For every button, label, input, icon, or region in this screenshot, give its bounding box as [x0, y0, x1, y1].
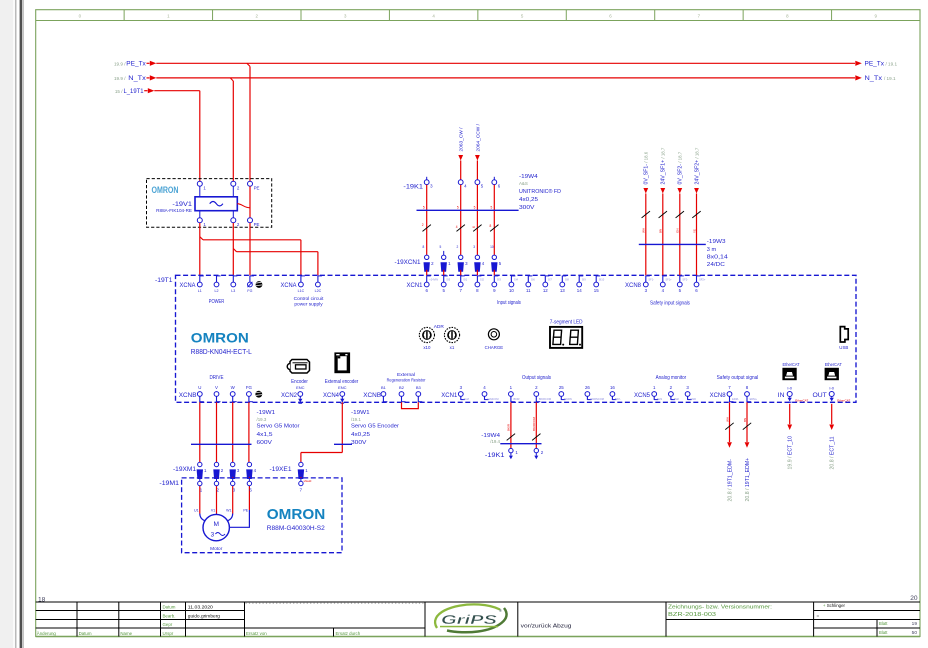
destination arrow 2064_CCW: [475, 155, 480, 161]
svg-text:WH: WH: [725, 417, 729, 422]
wire PE_Tx horizontal: [156, 62, 855, 64]
svg-text:7: 7: [459, 288, 462, 293]
ruler cell separators: [124, 10, 831, 21]
svg-text:A&S: A&S: [519, 181, 528, 186]
contact slash on wire 3: [423, 225, 431, 232]
svg-text:XCN8: XCN8: [710, 392, 726, 399]
motor circle M 3~: [203, 514, 229, 540]
svg-text:300V: 300V: [351, 440, 367, 446]
cable -19W1 motor bus line: [191, 443, 252, 445]
pin XCN4 ENC terminal: [340, 392, 345, 397]
wire XCN4 to encoder turn: [341, 402, 343, 452]
left panel strip (window chrome): [0, 0, 13, 648]
cable slash on wire 1: [507, 434, 515, 441]
svg-text:0V_SF2- / 18.7: 0V_SF2- / 18.7: [678, 151, 684, 184]
relay coil terminal 1: [509, 448, 513, 452]
svg-text:UNITRONIC® FD: UNITRONIC® FD: [519, 188, 561, 195]
encoder icon: [290, 360, 310, 374]
pin XCNA L2 stub: [216, 276, 218, 282]
svg-text:AM2: AM2: [674, 397, 680, 401]
svg-text:SI9: SI9: [582, 277, 586, 281]
svg-text:Zeichnungs- bzw. Versionsnumme: Zeichnungs- bzw. Versionsnummer:: [668, 604, 772, 610]
pin XCN1 1 terminal: [509, 392, 514, 397]
wire XCNB to motor plug at x=216.5: [216, 402, 218, 462]
svg-text:x10: x10: [423, 345, 431, 350]
svg-text:-19W1: -19W1: [257, 410, 276, 416]
svg-text:vor/zurück Abzug: vor/zurück Abzug: [521, 623, 572, 629]
svg-text:CHARGE: CHARGE: [485, 345, 504, 350]
svg-text:XCNB: XCNB: [363, 392, 381, 399]
pin motor 7 terminal: [299, 481, 303, 485]
svg-text:1: 1: [203, 222, 206, 227]
svg-text:SF2+: SF2+: [699, 277, 706, 281]
wire N_Tx horizontal: [156, 77, 855, 79]
pin stub XCN1 at x=494.3: [493, 276, 495, 282]
rotary switch x1 inner: [448, 331, 457, 340]
pin XCN8 6 terminal: [694, 282, 699, 287]
svg-text:B1: B1: [381, 385, 387, 390]
wire XCN1 pin2 down: [535, 402, 537, 448]
svg-text:6: 6: [472, 226, 476, 228]
svg-text:SI3: SI3: [497, 277, 501, 281]
svg-text:-19M1: -19M1: [159, 480, 179, 487]
source arrow L_19T1: [144, 90, 147, 92]
junction jog N_Tx drop: [230, 78, 233, 81]
source arrow 19T1_EDM-: [727, 442, 732, 448]
svg-text:3: 3: [211, 531, 215, 538]
svg-text:Name: Name: [120, 631, 132, 636]
-19K1 terminal 6: [492, 180, 497, 185]
svg-text:24V_SF2+ / 18.7: 24V_SF2+ / 18.7: [694, 147, 700, 184]
pin XCN1 7 terminal: [458, 282, 463, 287]
svg-text:20.8 / 19T1_EDM+: 20.8 / 19T1_EDM+: [745, 458, 751, 502]
wire branch to L1C horizontal: [203, 239, 301, 241]
svg-text:Bearb.: Bearb.: [163, 614, 176, 619]
pin XCN1 8 terminal: [475, 282, 480, 287]
svg-text:U1: U1: [194, 508, 199, 512]
svg-text:7: 7: [698, 13, 701, 18]
svg-text:V1: V1: [211, 508, 215, 512]
svg-text:OMRON: OMRON: [191, 330, 249, 346]
svg-text:ALMCOM: ALMCOM: [487, 397, 498, 401]
wire XCNB to motor plug at x=199.8: [199, 402, 201, 462]
wire N_Tx drop to filter pin 2: [232, 81, 234, 181]
destination arrow PE_Tx right: [855, 61, 862, 66]
wire filter pin1 to XCNA L1: [199, 223, 201, 275]
svg-text:U: U: [198, 385, 201, 390]
pin OUT terminal: [829, 392, 834, 397]
svg-text:13: 13: [560, 288, 565, 293]
pin motor 6 terminal: [247, 481, 251, 485]
svg-text:7-segment LED: 7-segment LED: [550, 320, 583, 326]
svg-text:1: 1: [448, 261, 451, 266]
svg-text:20: 20: [910, 595, 918, 602]
svg-text:YE: YE: [692, 229, 696, 233]
cable -19W1 encoder bus line: [334, 443, 352, 445]
svg-text:XCN1: XCN1: [407, 282, 423, 289]
pin XCN8 7 stub: [729, 396, 731, 402]
svg-text:4: 4: [456, 225, 458, 229]
svg-text:GND: GND: [690, 397, 696, 401]
svg-text:External: External: [397, 372, 415, 378]
wire XCNB to motor plug at x=248.9: [248, 402, 250, 462]
svg-text:BZR-2018-003: BZR-2018-003: [668, 612, 716, 618]
pin XCN1 12 stub: [544, 276, 546, 282]
svg-text:5: 5: [440, 245, 442, 249]
7-segment digit at 557.6: [553, 330, 562, 344]
svg-text:M: M: [213, 521, 219, 528]
svg-text:-19K1: -19K1: [403, 183, 423, 190]
plug -19XCN1 pin 1 stub: [443, 251, 445, 255]
svg-text:2: 2: [237, 222, 240, 227]
wire motor pin 2 down: [216, 486, 218, 514]
svg-text:18: 18: [38, 597, 46, 604]
svg-text:Ersatz von: Ersatz von: [246, 631, 267, 636]
pin XCN1 16 terminal: [610, 392, 615, 397]
svg-text:BKIR: BKIR: [514, 397, 520, 401]
filter pin 1 top terminal: [197, 181, 202, 186]
svg-text:6: 6: [609, 13, 612, 18]
svg-text:3: 3: [430, 184, 433, 189]
svg-text:AM1: AM1: [657, 397, 663, 401]
svg-text:-19V1: -19V1: [172, 201, 192, 208]
svg-text:Änderung: Änderung: [37, 631, 57, 636]
svg-text:Datum: Datum: [79, 631, 92, 636]
svg-text:4: 4: [662, 288, 665, 293]
svg-text:BN: BN: [743, 418, 747, 422]
wire plug to XCN1 at x=460.7: [460, 270, 462, 276]
svg-text:PE_Tx: PE_Tx: [865, 60, 885, 67]
svg-text:24/DC: 24/DC: [707, 262, 725, 268]
CHARGE LED: [488, 329, 499, 340]
svg-text:1: 1: [167, 13, 170, 18]
svg-text:shield: shield: [304, 479, 312, 483]
filter sine symbol: [210, 202, 223, 206]
-19K1 terminal 3: [424, 180, 429, 185]
wire 24V_SF1+ to XCN8: [662, 194, 664, 276]
pin XCN1 1 stub: [510, 396, 512, 402]
svg-text:Regeneration Resistor: Regeneration Resistor: [387, 378, 426, 384]
wire plug to XCN1 at x=494.3: [493, 270, 495, 276]
svg-text:+ Schlinger: + Schlinger: [823, 603, 846, 608]
pin XCNB U terminal: [197, 392, 202, 397]
pin XCN5 1 stub: [653, 396, 655, 400]
svg-text:I-0: I-0: [787, 385, 792, 390]
pin XCN1 15 terminal: [594, 282, 599, 287]
ground symbol at XCNB FG: [255, 391, 262, 398]
svg-text:L_19T1: L_19T1: [124, 88, 145, 95]
wire filter PE to XCNA FG: [249, 223, 251, 275]
cable slash on 24V_SF1+: [659, 211, 667, 218]
filter PE bottom terminal: [248, 218, 253, 223]
7-segment display box: [550, 327, 582, 348]
svg-text:3: 3: [237, 468, 240, 473]
plug -19XCN1 pin 5: [492, 255, 496, 259]
svg-text:L1: L1: [198, 289, 202, 293]
svg-text:USB: USB: [839, 345, 848, 350]
svg-text:B2: B2: [399, 385, 405, 390]
svg-text:N_Tx: N_Tx: [128, 75, 147, 82]
pin XCN1 9 terminal: [492, 282, 497, 287]
cable slash on 19T1_EDM+: [743, 423, 751, 430]
window divider line 2: [20, 0, 23, 648]
pin XCN1 10 stub: [510, 276, 512, 282]
svg-text:19: 19: [912, 621, 918, 627]
svg-text:ENC: ENC: [296, 385, 305, 390]
svg-text:WARN: WARN: [564, 397, 572, 401]
pin XCNA L1 terminal: [197, 282, 202, 287]
pin XCN1 5 terminal: [441, 282, 446, 287]
svg-text:5: 5: [442, 288, 445, 293]
svg-text:SI6: SI6: [531, 277, 535, 281]
svg-text:BKIR: BKIR: [507, 423, 511, 431]
pin XCN2 ENC stub: [299, 396, 301, 398]
shield symbol XCN2: [298, 399, 302, 403]
svg-text:4x1,5: 4x1,5: [257, 432, 273, 438]
svg-text:3 m: 3 m: [707, 247, 717, 253]
svg-text:19.9 /: 19.9 /: [114, 61, 126, 66]
svg-text:9: 9: [493, 288, 496, 293]
svg-text:6: 6: [425, 288, 428, 293]
pin XCN1 4 terminal: [482, 392, 487, 397]
motor hookup PE: [230, 510, 250, 527]
filter pin 1 bottom stub: [199, 211, 201, 218]
contact slash on wire 5: [473, 225, 481, 232]
svg-text:8: 8: [786, 13, 789, 18]
pin XCN5 1 terminal: [652, 392, 657, 397]
pin XCN1 16 stub: [611, 396, 613, 400]
svg-text:5: 5: [521, 13, 524, 18]
svg-text:2: 2: [431, 261, 434, 266]
pin XCN8 5 stub: [679, 276, 681, 282]
7-segment digit at 574.4: [570, 330, 579, 344]
pin XCN1 11 stub: [527, 276, 529, 282]
wire XCN8 to 19T1_EDM+: [746, 402, 748, 442]
wire PE_Tx drop to filter PE pin: [249, 66, 251, 181]
pin XCN8 8 terminal: [745, 392, 750, 397]
svg-text:IN: IN: [778, 392, 785, 399]
source arrow ECT_10: [787, 425, 792, 431]
external encoder icon: [335, 353, 350, 373]
svg-text:PE_Tx: PE_Tx: [126, 60, 146, 67]
svg-text:3: 3: [645, 288, 648, 293]
noise filter -19V1 dashed outline: [147, 179, 272, 228]
pin XCNB B1 terminal: [381, 392, 386, 397]
pin motor 3 terminal: [231, 481, 235, 485]
pin XCN8 3 terminal: [643, 282, 648, 287]
-19K1 terminal 5: [475, 180, 480, 185]
svg-text:4: 4: [482, 261, 485, 266]
svg-text:1: 1: [305, 468, 308, 473]
svg-text:SF1+: SF1+: [665, 277, 672, 281]
svg-text:ENC: ENC: [338, 385, 347, 390]
filter body box: [195, 197, 237, 211]
wire branch to L1C vertical: [300, 240, 302, 275]
pin XCN8 8 stub: [746, 396, 748, 402]
svg-text:4: 4: [464, 184, 467, 189]
pin XCNA L2 terminal: [214, 282, 219, 287]
svg-text:SI8: SI8: [565, 277, 569, 281]
svg-text:OMRON: OMRON: [267, 506, 326, 523]
GriPS logo swoosh lower: [447, 608, 507, 632]
svg-text:19.9 / ECT_10: 19.9 / ECT_10: [788, 436, 794, 470]
wire ECT_10 down: [789, 404, 791, 424]
wire 2064_CCW to -19K1 pin 5: [476, 161, 478, 180]
pin XCNB B3 stub: [417, 396, 419, 402]
svg-text:3: 3: [344, 13, 347, 18]
svg-text:EtherCAT: EtherCAT: [825, 362, 842, 368]
svg-text:N_Tx: N_Tx: [865, 75, 884, 82]
svg-text:2: 2: [670, 385, 673, 390]
svg-text:Ersatz durch: Ersatz durch: [336, 631, 361, 636]
svg-text:8: 8: [490, 224, 492, 228]
svg-text:2: 2: [256, 13, 259, 18]
svg-text:/ 19.1: / 19.1: [884, 76, 896, 81]
wire plug to XCN1 at x=426.7: [426, 270, 428, 276]
wire branch to L2C vertical: [317, 252, 319, 276]
svg-text:-19K1: -19K1: [485, 452, 505, 459]
svg-text:Servo G5 Encoder: Servo G5 Encoder: [351, 424, 399, 430]
svg-text:-19W3: -19W3: [707, 239, 726, 245]
pin XCN8 6 stub: [696, 276, 698, 282]
window divider line 3: [22, 0, 25, 648]
pin XCN8 4 stub: [662, 276, 664, 282]
svg-text:-19T1: -19T1: [155, 277, 173, 284]
jumper wire B2-B3: [402, 402, 419, 408]
svg-text:Analog monitor: Analog monitor: [656, 375, 687, 381]
plug -19XM1 pin 3: [231, 462, 235, 466]
svg-text:2: 2: [422, 223, 424, 227]
destination arrow 24V_SF2+: [694, 188, 699, 194]
pin XCNA L1 stub: [199, 276, 201, 282]
pin stub XCN1 at x=460.7: [460, 276, 462, 282]
svg-text:4x0,25: 4x0,25: [519, 197, 538, 203]
svg-text:5: 5: [499, 261, 502, 266]
svg-text:-19XM1: -19XM1: [173, 466, 196, 473]
pin XCN1 2 stub: [535, 396, 537, 402]
pin XCNB W terminal: [230, 392, 235, 397]
pin XCNA L3 stub: [232, 276, 234, 282]
svg-text:EDM+: EDM+: [750, 397, 758, 401]
pin XCNB B2 stub: [401, 396, 403, 402]
svg-text:Datum: Datum: [163, 605, 176, 610]
svg-text:EtherCAT: EtherCAT: [837, 398, 850, 402]
svg-text:OMRON: OMRON: [152, 185, 179, 195]
USB icon: [840, 327, 848, 342]
svg-text:11: 11: [526, 288, 531, 293]
svg-text:L3: L3: [231, 289, 235, 293]
svg-text:2: 2: [216, 488, 219, 493]
pin XCNA L1C stub: [300, 276, 302, 282]
svg-text:1: 1: [653, 385, 656, 390]
svg-text:Motor: Motor: [210, 546, 223, 551]
wire plug to motor box pin at x=216.5: [216, 477, 218, 478]
svg-text:5: 5: [679, 288, 682, 293]
svg-text:W1: W1: [226, 508, 231, 512]
pin stub XCN1 at x=443.7: [443, 276, 445, 282]
svg-text:2: 2: [457, 245, 459, 249]
svg-text:EDM-: EDM-: [732, 397, 739, 401]
svg-text:XCN2: XCN2: [281, 392, 297, 399]
source arrow N_Tx left: [147, 77, 150, 79]
svg-text:1: 1: [510, 385, 513, 390]
GriPS logo swoosh upper: [435, 604, 500, 628]
destination arrow 24V_SF1+: [660, 188, 665, 194]
pin XCN1 25 terminal: [559, 392, 564, 397]
svg-text:PE: PE: [254, 222, 260, 227]
pin stub XCN1 at x=477.4: [476, 276, 478, 282]
svg-text:GriPS: GriPS: [441, 612, 498, 627]
svg-text:6: 6: [695, 288, 698, 293]
svg-text:SI10: SI10: [599, 277, 605, 281]
svg-text:/19.3: /19.3: [257, 417, 267, 422]
svg-text:GN: GN: [676, 229, 680, 234]
pin XCN8 5 terminal: [677, 282, 682, 287]
svg-text:5: 5: [491, 205, 493, 209]
pin XCNB FG stub: [248, 396, 250, 402]
pin XCNB V stub: [216, 396, 218, 402]
svg-text:OUT: OUT: [812, 392, 826, 399]
svg-text:+24VIN: +24VIN: [429, 277, 438, 281]
junction jog PE_Tx drop: [247, 63, 250, 66]
pin XCN1 2 terminal: [534, 392, 539, 397]
plug -19XCN1 pin 4: [475, 255, 479, 259]
rotary switch x10 outer: [419, 327, 434, 342]
motor hookup W1: [227, 514, 233, 522]
wire 2063_CW to -19K1 pin 4: [460, 161, 462, 180]
-19K1 terminal 3 stub: [426, 177, 428, 180]
filter pin 2 bottom terminal: [231, 218, 236, 223]
wire motor pin 6 down: [248, 486, 250, 510]
wire filter PE through: [249, 186, 251, 217]
svg-text:BAT-: BAT-: [615, 397, 621, 401]
pin XCNA L1C terminal: [299, 282, 304, 287]
cable -19W3 bus line: [639, 243, 706, 245]
motor hookup U1: [200, 514, 206, 522]
svg-text:Safety output signal: Safety output signal: [717, 375, 759, 381]
pin XCN2 ENC terminal: [298, 392, 303, 397]
pin XCN1 13 stub: [561, 276, 563, 282]
wire -19K1 3 down to plug: [426, 185, 428, 256]
wire filter case to PE: [237, 204, 250, 208]
rotary switch x10 inner: [423, 331, 432, 340]
svg-text:16: 16: [610, 385, 615, 390]
contact slash on wire 6: [490, 225, 498, 232]
plug -19XCN1 pin 2: [425, 255, 429, 259]
svg-text:26: 26: [585, 385, 590, 390]
svg-text:8: 8: [476, 288, 479, 293]
svg-text:XCN4: XCN4: [323, 392, 339, 399]
svg-text:POWER: POWER: [209, 299, 225, 305]
pin XCN8 4 terminal: [660, 282, 665, 287]
svg-text:Output signals: Output signals: [522, 375, 551, 381]
svg-text:SF2-: SF2-: [682, 277, 688, 281]
destination arrow N_Tx right: [855, 75, 862, 80]
pin XCN1 3 stub: [460, 396, 462, 400]
svg-text:Safety input signals: Safety input signals: [650, 301, 690, 307]
window divider line 1: [15, 0, 16, 648]
svg-text:3: 3: [233, 488, 236, 493]
svg-text:I-0: I-0: [829, 385, 834, 390]
svg-text:XCNA: XCNA: [180, 282, 197, 289]
pin XCN8 7 terminal: [727, 392, 732, 397]
svg-text:PE: PE: [254, 185, 260, 190]
svg-text:-19W1: -19W1: [351, 410, 370, 416]
pin XCNB B2 terminal: [399, 392, 404, 397]
svg-text:XCN1: XCN1: [441, 392, 457, 399]
pin XCN1 12 terminal: [543, 282, 548, 287]
svg-text:SI5: SI5: [446, 277, 450, 281]
